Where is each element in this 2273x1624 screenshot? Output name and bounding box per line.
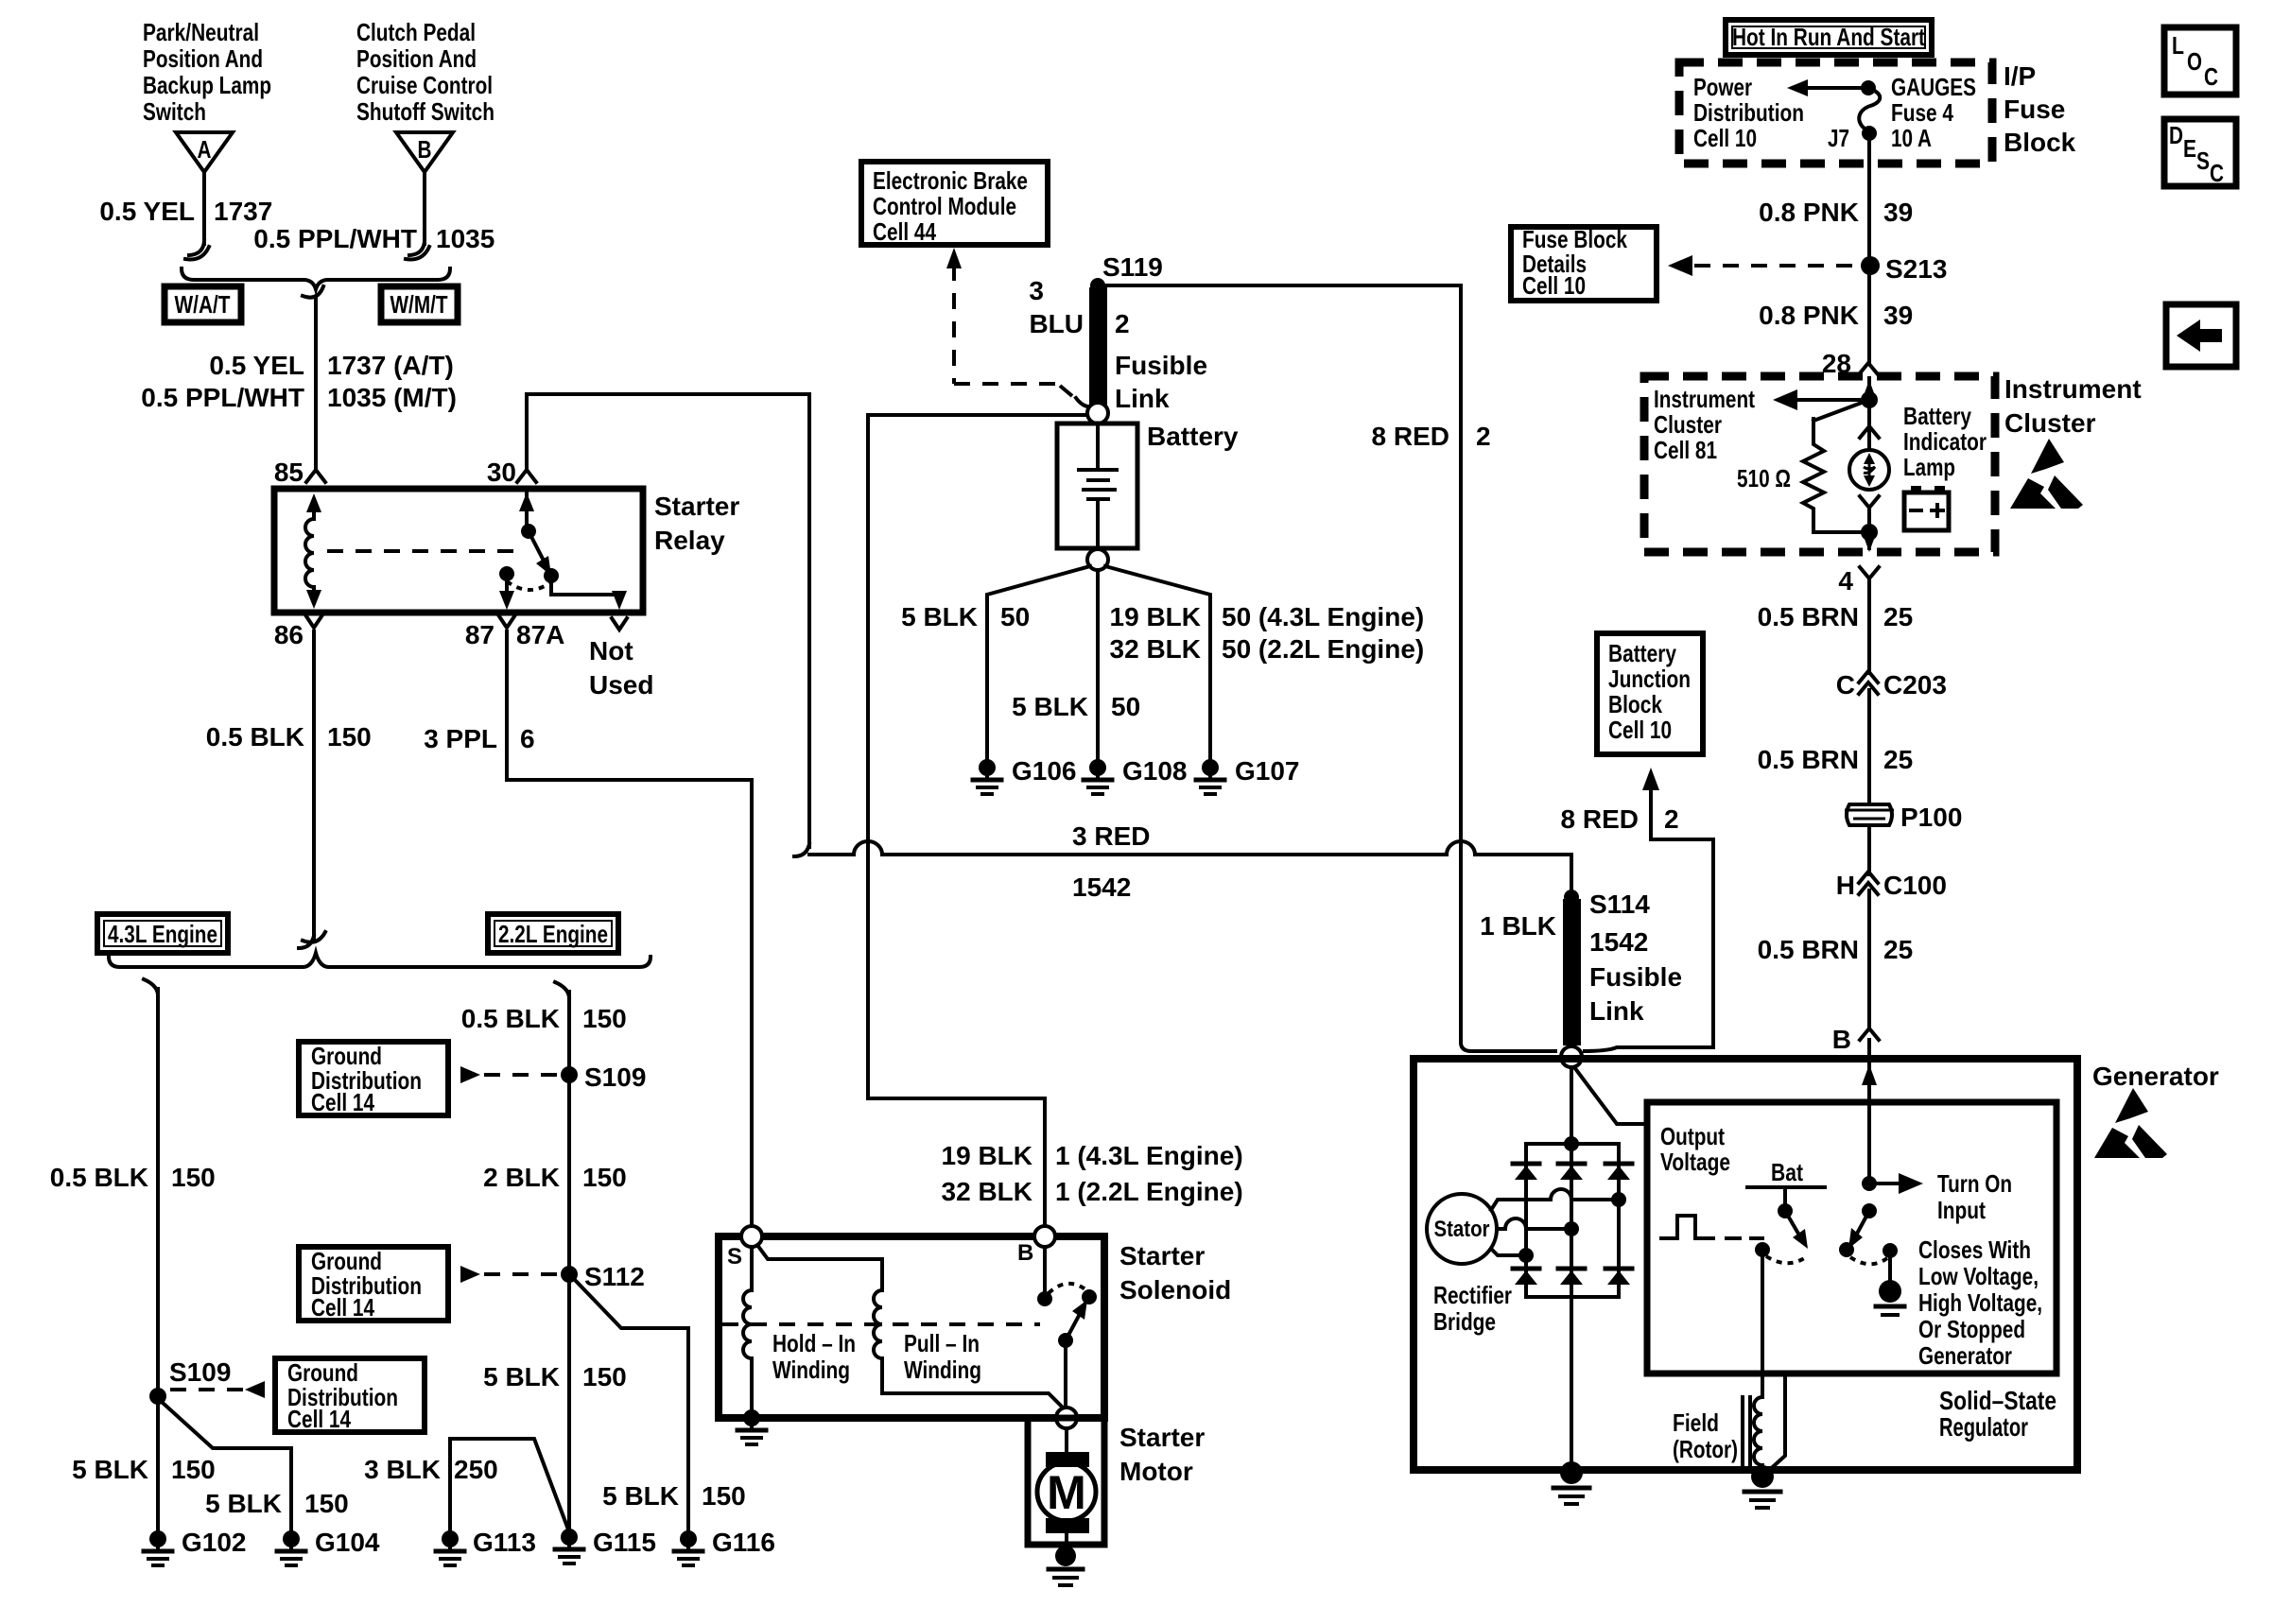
junction dot at cluster bottom: [1861, 524, 1878, 541]
svg-text:8 RED: 8 RED: [1561, 804, 1639, 834]
svg-text:Indicator: Indicator: [1903, 427, 1987, 456]
svg-text:0.5 BRN: 0.5 BRN: [1758, 745, 1859, 774]
wire fuse to S213: [1867, 133, 1871, 266]
pull-in winding coil: [874, 1290, 882, 1358]
terminal S circle: [727, 1226, 762, 1270]
svg-text:1737 (A/T): 1737 (A/T): [327, 351, 454, 380]
svg-text:50 (2.2L Engine): 50 (2.2L Engine): [1222, 634, 1424, 664]
svg-text:0.5 BLK: 0.5 BLK: [50, 1163, 148, 1192]
svg-text:5 BLK: 5 BLK: [1012, 692, 1088, 721]
svg-text:Control Module: Control Module: [873, 192, 1016, 220]
svg-text:32 BLK: 32 BLK: [1110, 634, 1201, 664]
wire P100 to C100: [1867, 825, 1871, 874]
svg-text:Shutoff Switch: Shutoff Switch: [356, 97, 495, 126]
svg-text:Battery: Battery: [1608, 639, 1676, 667]
wire label 0.8 PNK 39 (upper): [1759, 198, 1913, 227]
wire label 19 BLK 50 / 32 BLK 50: [1110, 602, 1425, 664]
svg-text:32 BLK: 32 BLK: [942, 1177, 1032, 1206]
svg-text:Relay: Relay: [654, 526, 725, 555]
svg-text:I/P: I/P: [2004, 61, 2036, 91]
dashed reference S109 to ground distribution cell 14: [170, 1388, 244, 1391]
svg-text:G115: G115: [593, 1528, 656, 1557]
svg-text:150: 150: [582, 1163, 627, 1192]
svg-text:Closes With: Closes With: [1918, 1235, 2031, 1264]
battery icon: [1904, 486, 1949, 530]
wire label 0.8 PNK 39 (lower): [1759, 301, 1913, 330]
svg-text:3 RED: 3 RED: [1072, 821, 1150, 851]
svg-text:39: 39: [1883, 301, 1913, 330]
svg-text:Field: Field: [1673, 1408, 1719, 1437]
svg-text:0.5 PPL/WHT: 0.5 PPL/WHT: [253, 224, 417, 253]
W/A/T box: [165, 286, 241, 322]
svg-text:Cell 44: Cell 44: [873, 217, 936, 246]
svg-text:10 A: 10 A: [1891, 124, 1932, 152]
splice S109 (left): [149, 1357, 231, 1405]
field (rotor) label: [1673, 1408, 1738, 1463]
instrument cluster outside label: [2004, 374, 2142, 438]
generator box: [1414, 1059, 2077, 1470]
svg-text:G107: G107: [1235, 756, 1300, 786]
svg-text:C203: C203: [1883, 670, 1947, 700]
svg-text:G116: G116: [712, 1528, 775, 1557]
battery indicator lamp chevron top: [1860, 426, 1879, 438]
battery box: [1057, 423, 1137, 548]
wire B into generator with up arrow: [1862, 1040, 1877, 1183]
arrow to instrument cluster cell 81: [1773, 389, 1869, 410]
svg-text:Fusible: Fusible: [1115, 351, 1207, 380]
wire from relay pin 30 up and over to 3 RED junction: [527, 394, 809, 847]
svg-text:0.5 YEL: 0.5 YEL: [209, 351, 304, 380]
svg-text:5 BLK: 5 BLK: [72, 1455, 148, 1484]
hot in run and start box: [1726, 20, 1932, 55]
wire from A: [185, 172, 209, 259]
svg-text:L: L: [2172, 31, 2184, 60]
gauges fuse 4 10A label: [1891, 73, 1976, 152]
connector triangle B (Clutch switch): [396, 132, 453, 172]
splice S109 (right): [561, 1063, 646, 1092]
pin 85 label and chevron: [274, 458, 325, 487]
right contact ground stub: [1876, 1251, 1904, 1315]
solenoid ground (hold-in): [737, 1409, 766, 1444]
dashed reference S213 to fuse block details: [1668, 255, 1855, 276]
svg-text:150: 150: [304, 1489, 349, 1518]
ground G102: [144, 1528, 247, 1565]
svg-text:H: H: [1836, 871, 1855, 900]
battery indicator lamp chevron bottom: [1860, 496, 1879, 508]
hold-in winding to ground: [750, 1358, 754, 1414]
arrow from fuse to power distribution: [1787, 79, 1868, 96]
svg-text:3 BLK: 3 BLK: [364, 1455, 441, 1484]
field coil core bars: [1743, 1397, 1750, 1465]
svg-text:Starter: Starter: [1119, 1423, 1205, 1452]
svg-text:0.5 BLK: 0.5 BLK: [206, 722, 304, 752]
resistor bottom connection: [1813, 530, 1869, 534]
diode (leg1 upper): [1513, 1164, 1539, 1180]
field ground: [1744, 1465, 1780, 1508]
wire S213 to instrument cluster: [1867, 266, 1871, 363]
svg-text:3 PPL: 3 PPL: [424, 724, 497, 753]
svg-text:Park/Neutral: Park/Neutral: [143, 18, 259, 46]
pin 87 label and chevron: [465, 616, 514, 649]
svg-text:150: 150: [702, 1481, 746, 1511]
turn on input label: [1937, 1169, 2012, 1224]
waveform symbol: [1661, 1216, 1762, 1238]
svg-text:J7: J7: [1828, 124, 1849, 152]
wire label 5 BLK 150 (below S112): [483, 1362, 627, 1391]
svg-text:S112: S112: [584, 1262, 645, 1291]
dashed reference from EBCM to fusible link: [946, 248, 1093, 406]
svg-text:C100: C100: [1883, 871, 1947, 900]
junction circle at battery positive: [1087, 403, 1108, 423]
wire label 0.5 YEL 1737 (A/T): [209, 351, 453, 380]
wire from B: [406, 172, 429, 259]
starter motor ground: [1049, 1533, 1083, 1585]
wire label 0.5 BRN 25 (3): [1758, 935, 1914, 964]
fusible link S114 (1 BLK 1542): [1563, 890, 1581, 1045]
svg-text:Regulator: Regulator: [1939, 1412, 2028, 1442]
relay switch common from pin 30: [519, 492, 536, 539]
regulator bottom wire to field ground: [1766, 1373, 1785, 1473]
dashed arc between relay contacts: [507, 581, 549, 590]
fusible link S114 labels: [1480, 890, 1682, 1026]
svg-text:Used: Used: [589, 670, 653, 700]
wire cluster to C203: [1867, 579, 1871, 673]
svg-text:Solenoid: Solenoid: [1119, 1275, 1231, 1304]
svg-text:Position And: Position And: [143, 44, 263, 73]
W/M/T box: [381, 286, 458, 322]
rectifier ground: [1553, 1461, 1589, 1504]
stator phase 3 wire to leg1: [1491, 1248, 1534, 1263]
wire from S114 to battery junction block (8 RED 2 arrow): [1585, 768, 1713, 1051]
svg-text:30: 30: [487, 458, 516, 487]
svg-text:Bridge: Bridge: [1433, 1307, 1496, 1336]
svg-text:Block: Block: [2004, 128, 2076, 157]
svg-text:C: C: [1836, 670, 1855, 700]
wire from relay 86 down to engine brace: [299, 631, 314, 948]
svg-text:150: 150: [171, 1163, 216, 1192]
svg-text:Link: Link: [1115, 384, 1170, 413]
svg-text:Cell 14: Cell 14: [311, 1293, 374, 1322]
wire C203 to P100: [1867, 690, 1871, 803]
battery indicator lamp: [1849, 450, 1889, 490]
regulator right switch: [1848, 1203, 1877, 1249]
rectifier bridge top rail: [1526, 1136, 1619, 1151]
pull-in winding label: [904, 1329, 981, 1384]
svg-text:5 BLK: 5 BLK: [205, 1489, 282, 1518]
wire S112 branch to G116: [575, 1280, 688, 1531]
relay internal dashed actuation line: [327, 549, 522, 553]
wire 3 RED 1542 from relay 30 to S114: [809, 841, 1571, 892]
dashed reference to S112: [484, 1272, 562, 1276]
relay contact 87A: [544, 568, 559, 583]
svg-text:87A: 87A: [516, 620, 564, 649]
svg-text:25: 25: [1883, 745, 1913, 774]
wire S114 to regulator output voltage: [1574, 1067, 1647, 1124]
wire label 0.5 BRN 25 (2): [1758, 745, 1914, 774]
svg-text:Battery: Battery: [1903, 402, 1971, 430]
svg-text:25: 25: [1883, 602, 1913, 631]
svg-text:2: 2: [1476, 422, 1491, 451]
rectifier output wire S114 down to ground: [1570, 1067, 1573, 1467]
svg-text:19 BLK: 19 BLK: [1110, 602, 1201, 631]
svg-text:A: A: [198, 135, 212, 164]
svg-text:B: B: [418, 135, 432, 164]
hold-in winding label: [772, 1329, 856, 1384]
relay contact 87: [499, 566, 514, 581]
solenoid internal dashed actuation line: [722, 1322, 1040, 1326]
svg-text:Winding: Winding: [904, 1356, 981, 1384]
LOC box: [2164, 27, 2236, 95]
starter motor box: [1028, 1418, 1104, 1545]
wire label 2 BLK 150: [483, 1163, 627, 1192]
ground G104: [277, 1528, 380, 1565]
regulator left switch contact: [1755, 1242, 1770, 1257]
svg-text:Cruise Control: Cruise Control: [356, 71, 493, 99]
svg-text:1 (4.3L Engine): 1 (4.3L Engine): [1055, 1141, 1243, 1170]
resistor 510 ohm: [1737, 419, 1824, 532]
starter relay box: [274, 489, 643, 613]
svg-text:Turn On: Turn On: [1937, 1169, 2012, 1198]
wire label 3 BLK 250: [364, 1455, 498, 1484]
ESD symbol (generator): [2094, 1088, 2167, 1158]
dashed arc between solenoid contacts: [1049, 1284, 1085, 1293]
wire label 5 BLK 150 (G116): [602, 1481, 746, 1511]
wire battery negative to G106: [987, 566, 1090, 760]
bat label and bar: [1747, 1158, 1825, 1187]
svg-text:2: 2: [1664, 804, 1679, 834]
svg-text:S: S: [2196, 147, 2210, 175]
svg-text:Low Voltage,: Low Voltage,: [1918, 1262, 2039, 1290]
svg-text:Rectifier: Rectifier: [1433, 1281, 1512, 1309]
svg-text:D: D: [2169, 121, 2183, 149]
svg-text:Cell 81: Cell 81: [1654, 436, 1717, 464]
svg-text:Winding: Winding: [772, 1356, 850, 1384]
wire 8 RED vertical down to S114: [1461, 285, 1555, 1051]
regulator left switch from bat: [1778, 1187, 1808, 1249]
fusible link S119 (3 BLU 2): [1089, 287, 1107, 407]
starter solenoid label: [1119, 1241, 1231, 1304]
field wire from left contact down: [1761, 1250, 1764, 1397]
pin 86 label and chevron: [274, 616, 321, 649]
svg-text:Voltage: Voltage: [1660, 1148, 1730, 1176]
svg-text:50 (4.3L Engine): 50 (4.3L Engine): [1222, 602, 1424, 631]
wire from B to switch contact: [1037, 1247, 1052, 1306]
junction circle at battery negative: [1087, 549, 1108, 570]
wire label 0.5 BLK 150: [206, 722, 372, 752]
svg-text:Instrument: Instrument: [1654, 385, 1755, 413]
park/neutral position and backup lamp switch label: [143, 18, 271, 126]
ground G113: [436, 1528, 536, 1565]
svg-text:Instrument: Instrument: [2004, 374, 2142, 404]
rectifier bridge leg 1: [1524, 1144, 1528, 1297]
starter relay label: [654, 492, 739, 555]
svg-text:25: 25: [1883, 935, 1913, 964]
hook at start of merged wire: [303, 286, 323, 298]
wire 87A to not-used pin: [551, 576, 627, 610]
svg-text:Hold – In: Hold – In: [772, 1329, 856, 1357]
diode (leg2 lower): [1558, 1269, 1585, 1285]
solid-state regulator box: [1647, 1102, 2056, 1373]
rectifier bridge label: [1433, 1281, 1512, 1336]
splice S119: [1090, 252, 1163, 293]
wire S109 branch to G104: [163, 1403, 291, 1531]
terminal B circle: [1017, 1226, 1055, 1266]
svg-text:1737: 1737: [214, 197, 272, 226]
4.3L Engine box: [97, 914, 228, 953]
stator phase 2 wire to leg2: [1497, 1218, 1579, 1236]
hold-in winding branch from S: [750, 1247, 754, 1290]
wire label 5 BLK 50 (G106): [901, 602, 1030, 631]
svg-text:50: 50: [1111, 692, 1140, 721]
wire label 3 RED / 1542: [1072, 821, 1150, 902]
I/P fuse block dashed box: [1679, 62, 1992, 164]
not used pin chevron: [612, 618, 627, 630]
clutch pedal position and cruise control shutoff switch label: [356, 18, 495, 126]
svg-text:Input: Input: [1937, 1196, 1986, 1224]
svg-text:0.5 PPL/WHT: 0.5 PPL/WHT: [141, 383, 304, 412]
svg-text:E: E: [2183, 134, 2196, 163]
svg-text:S213: S213: [1885, 254, 1947, 284]
svg-text:Power: Power: [1693, 73, 1752, 101]
relay switch movable arm toward 87A: [529, 531, 551, 576]
svg-text:Lamp: Lamp: [1903, 453, 1955, 481]
rectifier bridge leg 3: [1617, 1144, 1621, 1297]
field coil: [1754, 1397, 1762, 1465]
grommet P100: [1845, 803, 1962, 832]
svg-text:Output: Output: [1660, 1122, 1725, 1150]
regulator right switch contacts: [1839, 1242, 1898, 1258]
ground distribution cell 14 box (lower left): [275, 1358, 425, 1433]
svg-text:0.5 BRN: 0.5 BRN: [1758, 602, 1859, 631]
svg-text:G102: G102: [182, 1528, 247, 1557]
starter solenoid box: [719, 1236, 1104, 1418]
svg-text:4: 4: [1838, 566, 1853, 596]
svg-text:85: 85: [274, 458, 304, 487]
dashed reference to S109 (right): [484, 1073, 562, 1077]
svg-text:Battery: Battery: [1147, 422, 1239, 451]
svg-text:Or Stopped: Or Stopped: [1918, 1315, 2025, 1343]
svg-text:0.8 PNK: 0.8 PNK: [1759, 301, 1859, 330]
svg-text:Generator: Generator: [1918, 1341, 2012, 1370]
fusible link labels 3 BLU / 2 Fusible Link: [1029, 276, 1207, 413]
brace merging A and B wires: [182, 268, 450, 289]
svg-text:Fuse: Fuse: [2004, 95, 2065, 124]
stator circle: [1427, 1194, 1497, 1264]
instrument cluster cell 81 label: [1654, 385, 1755, 464]
solenoid switch fixed contact: [1082, 1289, 1097, 1304]
svg-text:5 BLK: 5 BLK: [483, 1362, 560, 1391]
power distribution cell 10 label: [1693, 73, 1804, 152]
svg-text:Block: Block: [1608, 690, 1662, 718]
connector triangle A (Park/Neutral switch): [176, 132, 233, 172]
wire battery negative to G108: [1096, 570, 1100, 760]
svg-text:B: B: [1832, 1025, 1851, 1054]
svg-text:G106: G106: [1012, 756, 1077, 786]
svg-text:Solid–State: Solid–State: [1939, 1386, 2056, 1415]
svg-text:B: B: [1017, 1240, 1033, 1266]
svg-text:Fuse 4: Fuse 4: [1891, 98, 1953, 127]
starter motor label: [1119, 1423, 1205, 1486]
svg-text:Motor: Motor: [1119, 1457, 1193, 1486]
dashed arc right switch: [1850, 1257, 1887, 1264]
stator phase 1 wire to leg3: [1491, 1189, 1626, 1210]
svg-text:87: 87: [465, 620, 495, 649]
wire battery negative to G107: [1105, 566, 1210, 760]
svg-text:0.5 YEL: 0.5 YEL: [99, 197, 195, 226]
starter motor armature M: [1037, 1462, 1096, 1521]
svg-text:Cell 14: Cell 14: [287, 1405, 351, 1433]
diode (leg2 upper): [1558, 1164, 1585, 1180]
junction dot at cluster top: [1861, 391, 1878, 408]
hold-in winding coil: [743, 1290, 752, 1358]
wire switch arm to starter motor: [1064, 1340, 1067, 1410]
svg-text:1542: 1542: [1072, 872, 1131, 902]
wire 3 BLK 250 from G113 to G115: [450, 1439, 568, 1531]
battery junction block cell 10 box: [1597, 633, 1703, 754]
svg-text:2: 2: [1115, 309, 1130, 338]
connector C203: [1836, 670, 1947, 700]
Not Used label: [589, 636, 653, 700]
rectifier bridge bottom rail: [1526, 1295, 1619, 1299]
ground distribution cell 14 box (top): [299, 1042, 448, 1116]
wire into cluster with up arrow: [1862, 378, 1877, 401]
svg-text:Switch: Switch: [143, 97, 206, 126]
svg-text:4.3L Engine: 4.3L Engine: [108, 920, 217, 948]
svg-text:Pull – In: Pull – In: [904, 1329, 980, 1357]
svg-text:Starter: Starter: [654, 492, 739, 521]
svg-text:Cluster: Cluster: [1654, 410, 1722, 439]
wire label 0.5 BLK 150 (4.3L branch): [50, 1163, 216, 1192]
ground distribution cell 14 box (middle): [299, 1247, 448, 1322]
svg-text:39: 39: [1883, 198, 1913, 227]
closes with low voltage high voltage or stopped generator label: [1918, 1235, 2042, 1370]
solid-state regulator label: [1939, 1386, 2056, 1442]
svg-text:Cell 10: Cell 10: [1693, 124, 1757, 152]
svg-text:Clutch Pedal: Clutch Pedal: [356, 18, 476, 46]
svg-text:50: 50: [1000, 602, 1030, 631]
wire label 0.5 BRN 25 (1): [1758, 602, 1914, 631]
hook above brace cusp: [303, 932, 325, 942]
svg-text:P100: P100: [1900, 803, 1962, 832]
wire label 0.5 YEL 1737: [99, 197, 272, 226]
svg-text:G108: G108: [1122, 756, 1188, 786]
relay coil (pins 85-86): [305, 493, 321, 609]
wire 2.2L branch down to G115: [555, 982, 569, 1529]
wire junction to motor: [1065, 1428, 1068, 1452]
svg-text:C: C: [2204, 62, 2218, 91]
electronic brake control module cell 44 box: [861, 162, 1048, 246]
svg-text:S109: S109: [584, 1063, 646, 1092]
wire from relay 87 to starter solenoid S: [507, 631, 752, 1225]
svg-text:510 Ω: 510 Ω: [1737, 464, 1791, 492]
output voltage label: [1660, 1122, 1730, 1176]
svg-text:S109: S109: [169, 1357, 231, 1387]
svg-text:150: 150: [582, 1004, 627, 1033]
svg-text:S119: S119: [1102, 252, 1163, 282]
turn on input junction: [1862, 1176, 1877, 1191]
dashed arc left switch: [1766, 1256, 1806, 1263]
wire label 5 BLK 150 (G104): [205, 1489, 349, 1518]
wire label 19 BLK 1 / 32 BLK 1 (solenoid B feed): [942, 1141, 1243, 1206]
svg-text:150: 150: [327, 722, 372, 752]
turn on input arrow: [1869, 1173, 1923, 1194]
pull-in winding to starter motor junction: [882, 1358, 1066, 1410]
svg-text:M: M: [1047, 1466, 1086, 1519]
wire label 8 RED 2: [1372, 422, 1491, 451]
splice S112: [561, 1262, 645, 1291]
svg-text:W/A/T: W/A/T: [175, 290, 231, 319]
starter motor brush (top): [1046, 1452, 1089, 1467]
